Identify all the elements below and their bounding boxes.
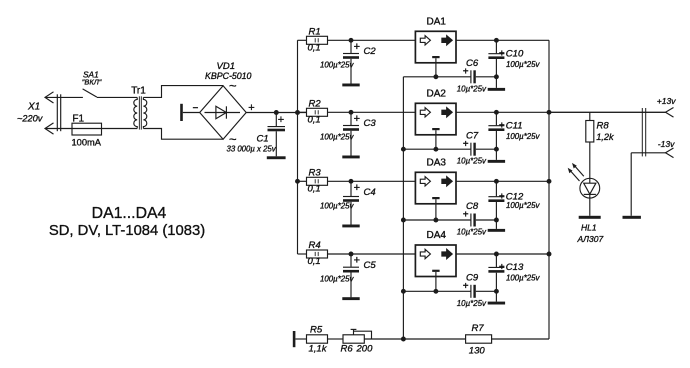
node adj wire at C11 branch xyxy=(494,147,499,152)
wire R4 to DA4 xyxy=(328,253,416,255)
left bus wire xyxy=(297,40,299,254)
svg-text:10µ*25v: 10µ*25v xyxy=(457,157,487,166)
DA3 output arrow (filled) xyxy=(442,177,452,186)
wire DA3 output xyxy=(456,180,549,182)
switch SA1 lever xyxy=(83,89,97,97)
svg-text:+: + xyxy=(499,192,505,203)
ground bar under C5 xyxy=(342,297,359,300)
svg-text:0,1: 0,1 xyxy=(308,256,321,267)
R6 wiper connection wire xyxy=(354,331,372,339)
svg-text:C7: C7 xyxy=(466,130,479,141)
DA2 output arrow (filled) xyxy=(442,108,452,117)
adj wire row 3 right part xyxy=(476,219,497,221)
adj wire row 1 left part xyxy=(403,76,471,78)
DA3 adj tab symbol xyxy=(432,197,439,199)
LED HL1 cathode bar xyxy=(584,193,596,195)
svg-text:R8: R8 xyxy=(597,121,610,132)
svg-text:R5: R5 xyxy=(310,325,323,336)
voltage regulator DA1 box xyxy=(415,31,456,63)
transformer Tr1 secondary winding xyxy=(143,97,146,128)
capacitor C8 10µ*25v xyxy=(470,214,472,227)
svg-text:200: 200 xyxy=(356,344,374,355)
connector X1 double-line symbol xyxy=(56,94,58,131)
svg-text:100µ*25v: 100µ*25v xyxy=(320,274,355,283)
svg-text:100µ*25v: 100µ*25v xyxy=(320,133,355,142)
svg-text:R4: R4 xyxy=(309,240,321,251)
wire R2 to DA2 xyxy=(328,111,416,113)
bridge rectifier VD1 diamond xyxy=(200,86,247,139)
svg-text:100µ*25v: 100µ*25v xyxy=(506,274,541,283)
capacitor C13 100µ*25v xyxy=(495,254,497,267)
wire +13v output xyxy=(549,111,666,113)
ground bar under C12 xyxy=(488,229,505,232)
svg-text:100µ*25v: 100µ*25v xyxy=(320,61,355,70)
wire R7 to right bus xyxy=(492,338,549,340)
ground bar under LED xyxy=(579,216,601,219)
LED HL1 triangle xyxy=(584,183,596,194)
svg-text:C10: C10 xyxy=(506,49,524,60)
node C3 tap xyxy=(349,110,354,115)
bridge negative terminal plate xyxy=(180,104,183,121)
svg-text:100µ*25v: 100µ*25v xyxy=(506,201,541,210)
svg-text:АЛ307: АЛ307 xyxy=(577,234,604,244)
node output at C11 xyxy=(494,110,499,115)
capacitor C6 10µ*25v xyxy=(470,70,472,83)
capacitor C7 10µ*25v xyxy=(470,143,472,156)
DA1 adj tab symbol xyxy=(432,56,439,58)
svg-text:100mA: 100mA xyxy=(72,138,102,148)
+13v pin fork xyxy=(666,108,674,118)
resistor R5 1,1k xyxy=(307,335,328,343)
capacitor C12 100µ*25v xyxy=(495,181,497,196)
svg-text:+: + xyxy=(354,41,360,53)
wire bottom input to fuse xyxy=(45,128,72,130)
svg-text:C5: C5 xyxy=(364,260,377,271)
ground bar under C1 xyxy=(267,156,286,159)
svg-text:1,2k: 1,2k xyxy=(596,132,614,142)
R6 wiper tap xyxy=(353,329,355,334)
ground bar under -13v return xyxy=(623,216,641,219)
svg-text:100µ*25v: 100µ*25v xyxy=(506,132,541,141)
svg-text:R2: R2 xyxy=(309,99,322,110)
adj wire row 2 left part xyxy=(403,148,471,150)
wire -13v to ground xyxy=(630,153,632,216)
wire R3 to DA3 xyxy=(328,180,416,182)
DA3 adj pin wire xyxy=(435,199,437,220)
svg-text:R7: R7 xyxy=(472,323,485,334)
right bus wire xyxy=(548,40,550,339)
svg-text:33 000µ x 25v: 33 000µ x 25v xyxy=(227,145,277,154)
node adj bus row 2 xyxy=(401,147,406,152)
svg-text:10µ*25v: 10µ*25v xyxy=(457,228,487,237)
DA2 adj tab symbol xyxy=(432,128,439,130)
capacitor C10 100µ*25v xyxy=(495,40,497,53)
svg-text:+: + xyxy=(278,114,284,126)
svg-text:~220v: ~220v xyxy=(17,113,44,123)
voltage regulator DA2 box xyxy=(415,103,456,135)
transformer Tr1 core xyxy=(138,96,140,129)
adj bus wire xyxy=(402,77,404,339)
svg-text:C9: C9 xyxy=(466,273,479,284)
-13v pin fork xyxy=(666,148,674,158)
DA1 input arrow (outline) xyxy=(420,36,430,45)
resistor R3 0,1 xyxy=(307,177,328,185)
DA4 input arrow (outline) xyxy=(420,249,430,258)
ground bar under C11 xyxy=(488,160,505,163)
node adj bus bottom xyxy=(401,337,406,342)
wire plate to R5 xyxy=(295,338,306,340)
svg-text:X1: X1 xyxy=(27,102,40,113)
node adj wire at C12 branch xyxy=(494,218,499,223)
node right bus row 3 xyxy=(547,179,552,184)
svg-text:+: + xyxy=(499,121,505,132)
connector X1 pin arrow bottom xyxy=(45,123,54,134)
node adj wire at C10 branch xyxy=(494,74,499,79)
LED HL1 circle xyxy=(580,178,600,198)
resistor R8 1,2k xyxy=(589,112,591,120)
wire R1 to DA1 xyxy=(328,39,416,41)
DA1 output arrow (filled) xyxy=(442,36,452,45)
svg-text:SD, DV, LT-1084 (1083): SD, DV, LT-1084 (1083) xyxy=(49,223,205,239)
LED emission arrow 2 xyxy=(574,165,584,176)
DA2 adj pin wire xyxy=(435,130,437,149)
node C4 tap xyxy=(349,179,354,184)
svg-text:R6: R6 xyxy=(341,344,354,355)
svg-text:100µ*25v: 100µ*25v xyxy=(320,202,355,211)
svg-text:+13v: +13v xyxy=(657,96,676,106)
wire -13v output xyxy=(631,152,665,154)
svg-text:10µ*25v: 10µ*25v xyxy=(457,84,487,93)
trimmer resistor R6 200 xyxy=(343,335,364,343)
main DC wire bridge to R2 xyxy=(246,112,306,114)
resistor R7 130 xyxy=(466,335,492,343)
svg-text:DA4: DA4 xyxy=(427,230,447,241)
node output at C13 xyxy=(494,252,499,257)
svg-text:"ВКЛ": "ВКЛ" xyxy=(82,78,102,87)
output connector double-line symbol xyxy=(641,108,643,156)
node adj bus row 4 xyxy=(401,289,406,294)
svg-text:C11: C11 xyxy=(506,121,523,132)
ground bar under C10 xyxy=(488,88,505,91)
voltage regulator DA3 box xyxy=(415,172,456,204)
node main wire to left bus xyxy=(295,110,300,115)
node C2 tap xyxy=(349,38,354,43)
capacitor C1 xyxy=(275,113,277,127)
wire DA1 output xyxy=(456,39,549,41)
node adj bus row 3 xyxy=(401,218,406,223)
svg-text:Tr1: Tr1 xyxy=(131,85,146,96)
adj wire row 4 right part xyxy=(476,290,497,292)
svg-text:C3: C3 xyxy=(364,118,377,129)
wire left bus to R1 xyxy=(298,39,307,41)
wire fuse to transformer xyxy=(102,128,138,130)
svg-text:DA2: DA2 xyxy=(427,89,447,100)
svg-text:+: + xyxy=(499,262,505,273)
node DA2 adj pin xyxy=(433,147,438,152)
svg-text:130: 130 xyxy=(469,345,486,356)
ground bar under C2 xyxy=(342,84,359,87)
LED HL1 lead to ground xyxy=(589,194,591,215)
wire left bus to R3 xyxy=(298,180,307,182)
node DA3 adj pin xyxy=(433,218,438,223)
capacitor C4 100µ*25v xyxy=(350,181,352,196)
svg-text:+: + xyxy=(354,113,360,125)
svg-text:0,1: 0,1 xyxy=(308,43,321,54)
wire top input to switch xyxy=(45,96,83,98)
svg-text:KBPC-5010: KBPC-5010 xyxy=(205,71,252,81)
wire plate to bridge xyxy=(183,112,200,114)
wire secondary top to bridge xyxy=(143,86,223,98)
node adj wire at C13 branch xyxy=(494,289,499,294)
adj wire row 3 left part xyxy=(403,219,471,221)
svg-text:+: + xyxy=(499,49,505,60)
connector X1 pin arrow top xyxy=(45,92,54,103)
adj wire row 2 right part xyxy=(476,148,497,150)
wire secondary bottom to bridge xyxy=(143,129,223,140)
svg-text:C2: C2 xyxy=(364,46,377,57)
svg-text:C13: C13 xyxy=(506,262,524,273)
capacitor C3 100µ*25v xyxy=(350,112,352,125)
svg-text:1,1k: 1,1k xyxy=(309,344,328,355)
adj wire row 1 right part xyxy=(476,76,497,78)
svg-text:R3: R3 xyxy=(309,168,322,179)
svg-text:R1: R1 xyxy=(309,27,321,38)
svg-text:C1: C1 xyxy=(257,134,269,145)
bridge VD1 inner diode xyxy=(205,112,241,114)
ground bar under C4 xyxy=(342,225,359,228)
svg-text:DA1...DA4: DA1...DA4 xyxy=(92,205,167,222)
ground bar under C3 xyxy=(342,156,359,159)
adj wire row 4 left part xyxy=(403,290,471,292)
svg-text:+: + xyxy=(354,182,360,194)
ground terminal plate left of R5 xyxy=(293,331,296,347)
resistor R1 0,1 xyxy=(307,36,328,44)
capacitor C2 100µ*25v xyxy=(350,40,352,53)
node C5 tap xyxy=(349,252,354,257)
wire left bus to R4 xyxy=(298,253,307,255)
svg-text:10µ*25v: 10µ*25v xyxy=(457,299,487,308)
wire DA2 output xyxy=(456,111,666,113)
node left bus row 3 xyxy=(295,179,300,184)
fuse F1 body xyxy=(72,123,102,135)
DA2 input arrow (outline) xyxy=(420,108,430,117)
wire R5 to R6 xyxy=(328,338,344,340)
node DA1 adj pin xyxy=(433,74,438,79)
wire R6 to R7 xyxy=(364,338,465,340)
svg-text:C6: C6 xyxy=(466,58,479,69)
DA4 adj pin wire xyxy=(435,272,437,291)
wire left bus to R2 xyxy=(298,111,307,113)
capacitor C11 100µ*25v xyxy=(495,112,497,125)
wire DA4 output xyxy=(456,253,549,255)
node right bus +13v xyxy=(547,110,552,115)
DA1 adj pin wire xyxy=(435,58,437,77)
DA4 adj tab symbol xyxy=(432,270,439,272)
svg-text:DA1: DA1 xyxy=(427,17,447,28)
svg-text:C8: C8 xyxy=(466,201,479,212)
transformer Tr1 primary winding xyxy=(134,97,137,128)
svg-text:F1: F1 xyxy=(72,113,84,124)
node output at C10 xyxy=(494,38,499,43)
svg-text:-13v: -13v xyxy=(658,139,675,149)
svg-text:+: + xyxy=(354,255,360,267)
node at C1 xyxy=(274,110,279,115)
node output at C12 xyxy=(494,179,499,184)
DA4 output arrow (filled) xyxy=(442,249,452,258)
ground bar under C13 xyxy=(488,302,505,305)
svg-text:100µ*25v: 100µ*25v xyxy=(506,60,541,69)
resistor R4 0,1 xyxy=(307,250,328,258)
capacitor C9 10µ*25v xyxy=(470,285,472,298)
svg-text:0,1: 0,1 xyxy=(308,115,321,126)
voltage regulator DA4 box xyxy=(415,245,456,277)
resistor R2 0,1 xyxy=(307,108,328,116)
node right bus row 4 xyxy=(547,252,552,257)
LED emission arrow 1 xyxy=(570,170,580,181)
svg-text:C4: C4 xyxy=(364,187,376,198)
wire R8 to LED xyxy=(589,142,591,183)
DA3 input arrow (outline) xyxy=(420,177,430,186)
node DA4 adj pin xyxy=(433,289,438,294)
wire switch to transformer xyxy=(97,96,137,98)
svg-text:0,1: 0,1 xyxy=(308,184,321,195)
svg-text:HL1: HL1 xyxy=(581,223,597,233)
capacitor C5 100µ*25v xyxy=(350,254,352,267)
svg-text:DA3: DA3 xyxy=(427,158,447,169)
